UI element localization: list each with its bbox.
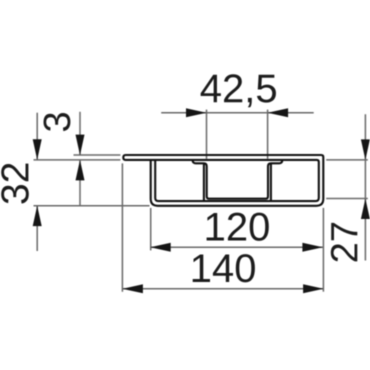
profile channel left outer wall <box>203 163 205 200</box>
dimension line 3 upper tail <box>79 112 81 155</box>
value label 120 <box>207 213 269 241</box>
profile channel right outer wall <box>270 163 272 200</box>
value label 42,5 <box>201 74 276 107</box>
arrowhead 3 upper <box>76 135 85 156</box>
extension line plate top (for dim 3) <box>74 154 121 156</box>
arrowhead 42,5 right <box>268 108 289 117</box>
extension line 42,5 left <box>206 110 208 159</box>
arrowhead 140 right <box>303 284 324 293</box>
profile outline: top plate, tray walls and bottom <box>123 155 323 206</box>
dimension line 32 upper tail <box>36 113 38 160</box>
extension line 120 left <box>150 208 152 251</box>
dimension line 120 (tray outer width) <box>150 246 323 248</box>
dimension line 42,5 (top, channel inner width) <box>161 112 314 114</box>
arrowhead 120 left <box>150 243 171 252</box>
profile middle channel: lips, inner walls, inner bottom <box>193 160 283 199</box>
extension line 42,5 right <box>267 110 269 159</box>
arrowhead 27 lower <box>361 199 370 220</box>
extension line 140 left (plate left end) <box>121 163 123 291</box>
extension line plate bottom right (for dim 27) <box>326 159 368 161</box>
extension line plate bottom (for dims 3 and 32) <box>34 159 121 161</box>
value label 32 (rotated) <box>1 164 29 204</box>
arrowhead 42,5 left <box>186 108 207 117</box>
dimension line 3 lower tail <box>79 160 81 206</box>
value label 3 (rotated) <box>44 113 71 131</box>
extension line 140/120 right (tray right wall) <box>322 208 324 292</box>
arrowhead 32 upper <box>33 139 42 160</box>
arrowhead 3 lower <box>76 160 85 181</box>
extension line channel inner bottom right (for dim 27) <box>326 198 368 200</box>
dimension line 27 (right, inner depth) <box>364 114 366 260</box>
dimension line 140 (plate overall width) <box>122 288 323 290</box>
extension line tray bottom left (for dim 32) <box>34 205 150 207</box>
dimension line 32 lower tail <box>36 206 38 251</box>
arrowhead 140 left <box>122 284 142 293</box>
value label 27 (rotated) <box>331 223 358 262</box>
arrowhead 120 right <box>302 243 323 252</box>
arrowhead 32 lower <box>33 206 42 227</box>
value label 140 <box>193 254 255 282</box>
arrowhead 27 upper <box>361 139 370 160</box>
